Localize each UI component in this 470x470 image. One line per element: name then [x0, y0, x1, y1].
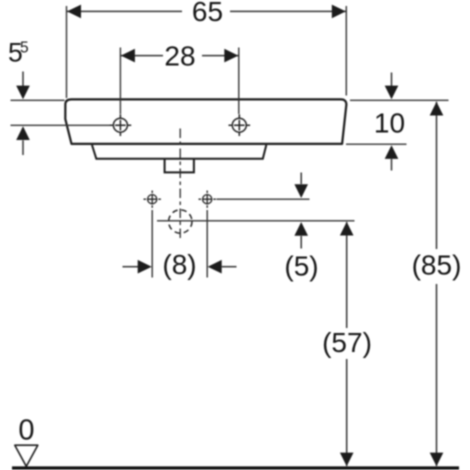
dimension 28 arrow left: [121, 49, 135, 63]
tap hole right: [229, 114, 251, 136]
dimension (57) line: [346, 222, 348, 328]
siphon circle: [169, 210, 192, 233]
dimension (8) extension line left: [151, 210, 153, 278]
dimension 28 extension line right: [238, 48, 240, 115]
dimension 5.5 upper line: [11, 99, 65, 101]
dimension 10 upper arrow: [391, 73, 393, 87]
fixing holes line: [217, 198, 310, 200]
dimension 5.5 lower arrow: [16, 126, 30, 140]
basin underside shelf: [92, 145, 266, 159]
svg-text:(85): (85): [412, 250, 462, 281]
dimension 65 arrow right: [332, 5, 346, 19]
dimension (8) extension line right: [206, 210, 208, 278]
svg-text:(8): (8): [162, 249, 196, 280]
ground line: [12, 466, 459, 469]
svg-text:28: 28: [164, 40, 195, 71]
dimension 5.5 lower line: [11, 124, 111, 126]
fixing hole left: [144, 191, 161, 208]
dimension (5) upper arrow: [300, 173, 302, 185]
dimension (57) bottom arrow: [340, 453, 354, 467]
svg-text:0: 0: [18, 414, 34, 446]
drain centerline: [179, 129, 181, 241]
dimension 5.5 upper arrow: [22, 72, 24, 87]
fixing hole right: [199, 191, 216, 208]
dimension 28 arrow right: [224, 49, 238, 63]
dimension (8) right arrow: [208, 260, 222, 274]
svg-text:65: 65: [192, 0, 223, 27]
svg-text:5: 5: [20, 39, 29, 56]
dimension 65 line: [67, 10, 183, 12]
dimension (57) top arrow: [340, 222, 354, 236]
svg-text:10: 10: [374, 108, 405, 139]
dimension 10 upper extension line: [350, 99, 449, 101]
siphon line: [157, 220, 355, 222]
dimension (8) left arrow: [123, 266, 139, 268]
dimension 65 extension line right: [345, 6, 347, 96]
washbasin outline: [65, 99, 346, 143]
dimension (85) line: [436, 102, 438, 249]
dimension 10 lower extension line: [346, 143, 407, 145]
dimension 28 line: [120, 55, 163, 57]
dimension 65 extension line left: [66, 6, 68, 98]
dimension 28 extension line left: [119, 48, 121, 115]
dimension 65 arrow left: [67, 5, 81, 19]
dimension (85) top arrow: [430, 102, 444, 116]
drain box: [165, 159, 194, 173]
datum triangle: [15, 445, 38, 466]
dimension 10 lower arrow: [385, 145, 399, 159]
tap hole left: [110, 114, 132, 136]
dimension (5) lower arrow: [294, 222, 308, 236]
svg-text:(5): (5): [284, 251, 318, 282]
svg-text:(57): (57): [322, 327, 372, 358]
dimension (85) bottom arrow: [430, 453, 444, 467]
